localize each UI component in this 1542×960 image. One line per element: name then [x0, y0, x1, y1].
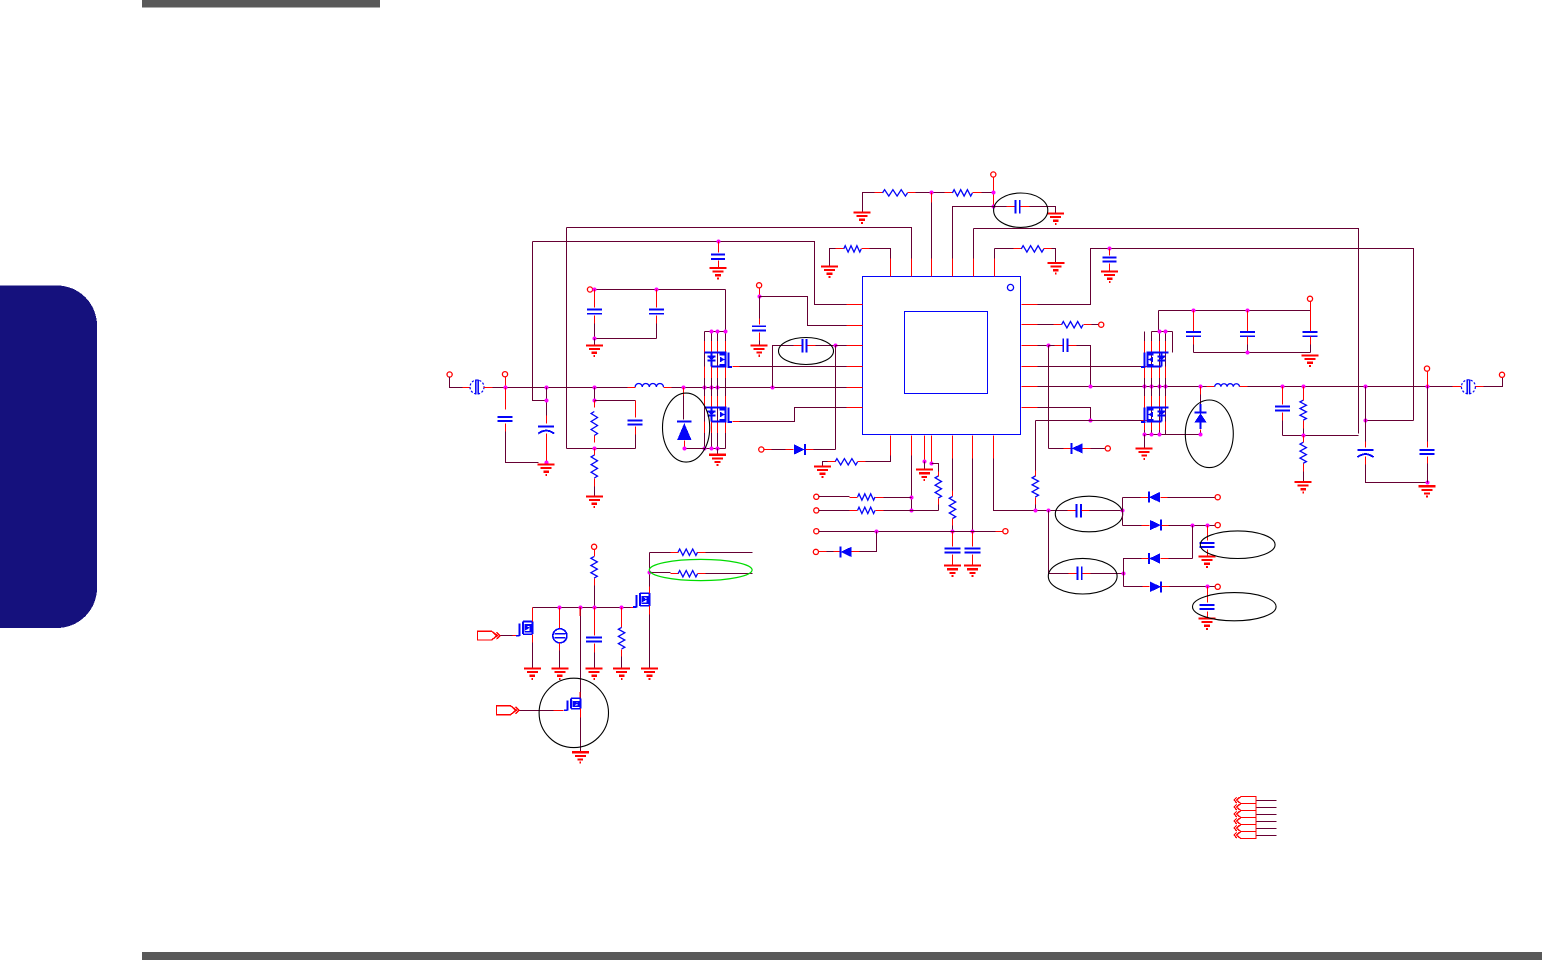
wire ICb2: [911, 456, 913, 511]
input pin J1: [447, 372, 452, 377]
wire D6 to bracket: [685, 447, 705, 449]
wire grn bot end: [706, 573, 753, 575]
diode D6: [677, 421, 691, 440]
pin stub Rg1 left: [671, 552, 679, 554]
wire Jr6: [819, 496, 850, 498]
pin stub C-3b top: [1247, 311, 1249, 332]
diode D-cp1: [1149, 492, 1160, 503]
wire ICb1: [866, 456, 891, 462]
inductor L2: [1215, 384, 1240, 387]
wire bootR to cap: [1049, 345, 1055, 347]
pin stub Rb1 right: [858, 461, 866, 463]
wire out-b res lead: [1303, 387, 1305, 401]
wire Rt3 to IC pin1: [870, 249, 891, 268]
pin stub Rb1 left: [828, 461, 836, 463]
node bootR: [1047, 344, 1051, 348]
pin stub C-ell2 right: [1021, 206, 1030, 208]
wire boot stub: [836, 345, 847, 347]
wire cp row1: [1049, 510, 1068, 512]
mosfet cluster right red segs: [1145, 341, 1166, 430]
pin stub C-wb top: [718, 242, 720, 253]
node Rbb-b: [1150, 433, 1154, 437]
wire CS gnd: [559, 651, 561, 668]
pin stub R-r6 right: [876, 497, 884, 499]
wire rail out: [1248, 386, 1453, 388]
capacitor C-wd: [1103, 257, 1117, 261]
wire J1 to port P1: [450, 377, 463, 388]
transistor M6: [516, 622, 533, 637]
wire R-out1 to row: [1303, 429, 1305, 436]
wire D: [1038, 249, 1414, 421]
wire Cboot left drop: [773, 346, 794, 388]
pin J-r7: [814, 508, 819, 513]
wire R-out1 bot: [1303, 421, 1305, 429]
wire r-pin3: [1038, 345, 1049, 347]
pin stub IC right pin2: [1022, 324, 1038, 326]
wire grn top: [650, 552, 671, 554]
resistor R-sub2: [618, 627, 624, 649]
node Cin ground: [545, 461, 549, 465]
node wireB cap: [717, 240, 721, 244]
wire C-out2 bot: [1427, 464, 1429, 483]
wire Rsub2 gnd: [621, 657, 623, 668]
pin stub Rt1 right: [908, 192, 916, 194]
mosfet R vert d: [1165, 332, 1167, 435]
wire M6 drain red: [532, 608, 534, 622]
page bottom bar: [142, 952, 1542, 960]
pin stub D5 left: [1064, 448, 1072, 450]
node out-d: [1426, 385, 1430, 389]
node wireD cap: [1108, 247, 1112, 251]
capacitor C-ell2: [1016, 200, 1020, 214]
pin stub R-b5 bot: [952, 519, 954, 526]
pin stub C-3c top: [1310, 311, 1312, 332]
page top bar: [142, 0, 380, 8]
pin stub Rt3 left: [836, 248, 844, 250]
node bbracket-b: [710, 447, 714, 451]
pin stub C-cp1 right: [1082, 510, 1090, 512]
node sub-b: [579, 606, 583, 610]
capacitor C-wb: [711, 255, 725, 259]
pin stub Rt2 left: [945, 192, 953, 194]
node b2-r6: [910, 496, 914, 500]
pin stub M2 source: [733, 421, 740, 423]
wire C drop to IC: [973, 229, 975, 263]
ground G-en: [751, 345, 768, 355]
node out gnd: [1426, 481, 1430, 485]
wire CS bot red: [559, 643, 561, 651]
wire M6 src red: [532, 635, 534, 643]
wire ICb6 red: [972, 436, 974, 459]
wire R cluster gnd: [1144, 435, 1146, 448]
wire b4 jog: [932, 464, 939, 472]
ground G-b1: [814, 467, 831, 477]
wire Rb5 to node: [952, 526, 954, 532]
ground G-M6: [524, 669, 541, 679]
pin stub IC top pin4: [952, 259, 954, 277]
node cp-b: [1121, 509, 1125, 513]
node railR-d: [1158, 385, 1162, 389]
resistor R-fb2: [591, 455, 597, 478]
resistor R-out1: [1300, 400, 1306, 420]
pin stub R-r2 right: [1084, 324, 1092, 326]
wire PF1 to M6: [501, 635, 513, 637]
wire R-out2 gnd: [1303, 472, 1305, 482]
ground G-out1: [1295, 482, 1312, 492]
node 3cap-a: [1192, 309, 1196, 313]
wire A drop: [566, 228, 568, 449]
wire Jsub: [594, 550, 596, 557]
pin J-cp2: [1215, 523, 1220, 528]
node rail-J2: [504, 386, 508, 390]
wire row531: [819, 531, 996, 533]
node caps gnd: [593, 337, 597, 341]
wire J-top down: [993, 177, 995, 207]
ground G-M7: [572, 752, 589, 762]
ground G-cpo1: [1199, 557, 1216, 567]
wire b6 cap gnd: [972, 555, 974, 565]
wire rail right: [1038, 386, 1207, 388]
wire sub-b drop: [580, 608, 582, 701]
capacitor C-3c: [1303, 332, 1318, 336]
pin stub M7 gate: [554, 710, 564, 712]
transistor M5: [633, 593, 650, 607]
pin stub Rt3 right: [862, 248, 870, 250]
wire Rb4 to b2: [938, 505, 940, 511]
wire Rt mid to IC pin3: [931, 193, 933, 263]
pin stub IC left pin1: [847, 304, 863, 306]
current source CS1: [553, 629, 567, 643]
resistor R-t2: [952, 190, 972, 196]
pin stub R-fb2 top: [594, 449, 596, 456]
wire ICb4: [931, 436, 933, 464]
node cp-d2b: [1206, 524, 1210, 528]
node Rbb-a: [1143, 433, 1147, 437]
node en: [758, 295, 762, 299]
pin stub C-out2 bot: [1427, 457, 1429, 464]
node Cin2-tie: [545, 399, 549, 403]
wire cp drop: [1048, 511, 1050, 574]
pin stub C-fb bot: [635, 427, 637, 435]
pin stub IC left pin2: [847, 325, 863, 327]
wire Rt1 left drop: [863, 193, 875, 212]
pin stub row end: [996, 531, 1004, 533]
ground G-caps: [586, 346, 603, 356]
wire J-bst to D: [772, 449, 786, 451]
port flag PC6: [1234, 832, 1256, 839]
resistor R-r7: [858, 507, 876, 513]
resistor R-b5: [949, 497, 955, 519]
wire r6 to b2: [884, 497, 912, 499]
node railR-c: [1150, 385, 1154, 389]
wire out-c drop: [1365, 387, 1367, 448]
wire C top: [974, 229, 1359, 434]
wire Rsub2 bot red: [621, 650, 623, 657]
pin J-sub: [592, 544, 597, 549]
wire out row420: [1366, 420, 1414, 422]
transistor M2 (lower left): [705, 408, 727, 422]
pin stub C-bR left: [1055, 345, 1063, 347]
wire M7 src gnd: [580, 718, 582, 752]
highlight ellipse E7: [1200, 531, 1275, 559]
pin stub C-fb top: [635, 401, 637, 418]
wire C-p1 bot: [594, 324, 596, 339]
ground G-RC: [586, 497, 603, 507]
wire cluster gnd: [717, 449, 719, 454]
wire J2 node to Cin1: [505, 388, 507, 410]
pin stub IC right pin6: [1022, 407, 1038, 409]
wire ICb5 red: [952, 436, 954, 459]
capacitor C-cp1: [1077, 504, 1081, 518]
wire 3cap bottom: [1194, 352, 1311, 354]
wire Jout2: [1427, 372, 1429, 387]
port flag PF2: [497, 706, 520, 715]
node railR-b: [1143, 385, 1147, 389]
wire Rb1 gnd: [823, 462, 828, 466]
node g row b5: [951, 530, 955, 534]
pin stub Rt2 right: [973, 192, 982, 194]
wire D7 up: [860, 532, 877, 552]
resistor R-g2: [678, 571, 698, 577]
wire Rsw to cp: [1035, 505, 1037, 511]
wire PC2 stub: [1257, 807, 1277, 809]
wire b5 cap gnd: [952, 555, 954, 565]
pin stub L1 right: [664, 387, 672, 389]
pin stub C-cp2 left: [1069, 573, 1077, 575]
wire cp c2 lead: [1207, 587, 1209, 603]
node rail-Cin2: [545, 386, 549, 390]
wire b3 gnd lead: [924, 462, 926, 469]
wire Rt3 left: [830, 249, 836, 266]
node cp-rsw: [1034, 509, 1038, 513]
pin stub C-3a bot: [1193, 337, 1195, 345]
node RC top: [593, 399, 597, 403]
input port P1: [470, 380, 484, 395]
pin stub L2 right: [1240, 386, 1248, 388]
node out row420: [1364, 419, 1368, 423]
ground G-Mright: [1136, 448, 1153, 458]
node out-a: [1281, 385, 1285, 389]
wire M2 jog to IC pin6: [740, 408, 847, 422]
wire rail to Cin2: [546, 388, 548, 424]
wire cp c1 lead: [1207, 526, 1209, 541]
pin stub Rt4 right: [1044, 248, 1052, 250]
node grn: [648, 571, 652, 575]
wire caps bottom: [595, 338, 657, 340]
port flag PF1: [478, 631, 501, 640]
pin stub Rg2 right: [698, 573, 706, 575]
node row-diode: [875, 530, 879, 534]
wire Cin1 to ground rail: [506, 424, 539, 463]
node out-b: [1302, 385, 1306, 389]
pin stub R-r7 left: [850, 510, 858, 512]
wire cp row1 b: [1090, 510, 1123, 512]
ground G-wb: [710, 268, 727, 278]
wire rail L1 to IC pin5: [672, 387, 847, 389]
wire A top: [567, 228, 912, 268]
pin stub IC top pin3b: [931, 259, 933, 277]
capacitor C-out1: [1275, 406, 1290, 410]
node cp-d4: [1206, 585, 1210, 589]
wire C-3c bot: [1310, 345, 1312, 353]
wire Dcp4 out: [1170, 586, 1216, 588]
pin stub D6 top: [683, 388, 685, 396]
node b2-r7: [910, 509, 914, 513]
resistor R-out2: [1300, 442, 1306, 463]
port flag PC5: [1234, 825, 1256, 832]
node bracket-b: [710, 330, 714, 334]
ground G-3cap: [1302, 356, 1319, 366]
wire J-bst stub: [764, 449, 772, 451]
ground G-wd: [1101, 272, 1118, 282]
node rail-Cboot: [771, 386, 775, 390]
wire ICb6: [972, 459, 974, 532]
pin stub D-bst left: [786, 449, 794, 451]
pin stub C-bR right: [1069, 345, 1077, 347]
capacitor C-boot: [802, 339, 806, 353]
capacitor C-3b: [1240, 332, 1255, 336]
ground G-Rsub2: [613, 669, 630, 679]
wire to C-ell2: [994, 206, 1007, 208]
output port P2: [1461, 379, 1475, 394]
pin J-r2: [1099, 322, 1104, 327]
wire C-p2 bot: [656, 324, 658, 339]
pin stub R-fb1 bot: [594, 436, 596, 443]
wire cp c2 gnd: [1207, 612, 1209, 618]
pin stub C-3b bot: [1247, 337, 1249, 345]
wire bootR to D5: [1049, 448, 1064, 450]
pin stub IC left pin3: [847, 345, 863, 347]
capacitor C-b6: [965, 548, 981, 552]
capacitor C-oute electrolytic: [1358, 450, 1374, 457]
wire Rsub1 to row: [594, 586, 596, 608]
pin stub R-fb1 top: [594, 401, 596, 408]
ground G-Cin: [538, 465, 555, 475]
pin stub Dcp3 right: [1161, 558, 1169, 560]
node Rt mid: [930, 191, 934, 195]
node D6 out: [683, 447, 687, 451]
node Jtop-Rt2: [992, 191, 996, 195]
pin stub C-p1 bot: [594, 316, 596, 324]
pin stub Dcp4 left: [1143, 586, 1150, 588]
pin stub Dcp1 left: [1141, 497, 1149, 499]
node sub-d: [620, 606, 624, 610]
mosfet R top riser: [1158, 311, 1160, 332]
wire Rt4 to gnd: [1052, 249, 1056, 263]
node rail-RC: [593, 386, 597, 390]
highlight ellipse E8: [1193, 593, 1277, 621]
wire out-d drop: [1427, 387, 1429, 448]
node Rbracket-b: [1164, 330, 1168, 334]
wire Csub bot red: [594, 644, 596, 653]
wire caps gnd drop: [594, 339, 596, 345]
wire Rt1-Rt2: [916, 192, 945, 194]
wire M1 to IC pin4: [740, 366, 847, 368]
wire Rsub2 lead: [621, 608, 623, 628]
wire Rt4 left h: [995, 248, 1014, 250]
node Rbb-c: [1158, 433, 1162, 437]
wire D-bst to boot: [814, 449, 836, 451]
wire ICb7 red: [993, 436, 995, 459]
pin stub Rg1 right: [698, 552, 706, 554]
node D8 out: [1199, 433, 1203, 437]
pin stub C-en top: [759, 319, 761, 325]
wire sw row: [1036, 420, 1142, 422]
capacitor Cin2 electrolytic: [538, 426, 554, 433]
wire Csub gnd: [594, 653, 596, 668]
pin stub D7 right: [852, 551, 860, 553]
wire Cboot right: [816, 345, 836, 347]
pin stub IC right pin3: [1022, 345, 1038, 347]
diode D5: [1072, 443, 1083, 454]
left blue tab: [0, 286, 97, 629]
pin stub C-ell2 left: [1007, 206, 1015, 208]
node out row435: [1302, 434, 1306, 438]
resistor R-r6: [858, 494, 876, 500]
node b3 gnd: [923, 460, 927, 464]
mosfet cluster top bracket: [705, 331, 726, 333]
port flag PC3: [1234, 811, 1256, 818]
wire PC1 stub: [1257, 800, 1277, 802]
wire PC3 stub: [1257, 814, 1277, 816]
node Jtop-Cell2: [992, 205, 996, 209]
node caps-b: [655, 288, 659, 292]
wire Jd7: [827, 551, 834, 553]
pin stub R-b4 bot: [938, 499, 940, 505]
wire grn vert: [649, 553, 651, 594]
pin stub D8 bot: [1200, 430, 1202, 432]
mosfet R drain drop: [1172, 332, 1174, 353]
wire R-fb2 to ground: [594, 487, 596, 496]
node bracket-d: [724, 330, 728, 334]
pin stub Dcp2 right: [1162, 525, 1169, 527]
pin stub C-oute top: [1365, 442, 1367, 448]
capacitor C-bootR: [1063, 339, 1067, 353]
wire J-en down: [759, 288, 761, 297]
wire ICb3: [924, 436, 926, 462]
pin stub D5 right: [1083, 448, 1091, 450]
wire cp D3 row: [1169, 558, 1193, 560]
node 3cap-b: [1246, 309, 1250, 313]
wire Jd7 stub: [819, 551, 827, 553]
node rail-M1a: [703, 386, 707, 390]
pin J-out2: [1424, 366, 1429, 371]
wire cp D4 row: [1124, 586, 1143, 588]
resistor R-t4: [1021, 246, 1044, 252]
wire B top: [533, 242, 847, 305]
node rail-M1b: [710, 386, 714, 390]
ground G-Rt3: [821, 267, 838, 277]
capacitor C-fb: [628, 420, 643, 424]
pin J-row-end: [1003, 529, 1008, 534]
wire Dcp1 out: [1168, 497, 1216, 499]
mosfet cluster left vert c: [717, 332, 719, 449]
wire RC top to C: [595, 400, 636, 402]
pin stub Rsub1 bot: [594, 579, 596, 586]
pin stub R-sw bot: [1035, 498, 1037, 505]
pin stub C-oute bot: [1365, 457, 1367, 465]
wire C-en gnd: [759, 341, 761, 345]
capacitor C-b5: [945, 548, 961, 552]
wire r7 to b2 to r8: [884, 510, 939, 512]
wire R-out2 top: [1303, 436, 1305, 443]
highlight circle E-M7: [539, 678, 608, 747]
pin J-caps: [587, 287, 592, 292]
pin stub R-fb2 bot: [594, 479, 596, 487]
pin stub Dcp2 left: [1142, 525, 1150, 527]
capacitor C-sub: [586, 637, 602, 641]
wire C-bR corner: [1077, 346, 1091, 387]
